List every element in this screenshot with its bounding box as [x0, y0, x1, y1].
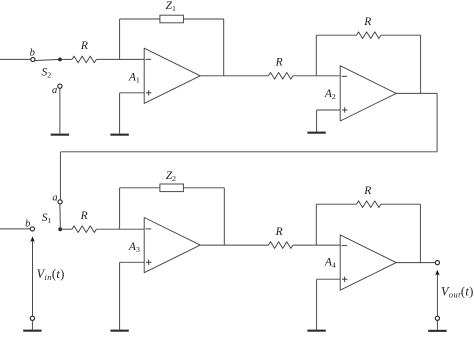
impedance Z1 (A1 feedback) — [160, 15, 184, 23]
resistor R (A2 feedback) — [357, 32, 381, 39]
wire: A4 output to Vout terminal — [396, 262, 435, 264]
wire: bottom input from left edge to S1 terminal b — [0, 228, 30, 230]
ground (Vout reference) — [428, 330, 446, 332]
op-amp A3 — [144, 218, 200, 273]
wire: A2 feedback right vertical to output — [420, 35, 422, 93]
wire: A1 feedback left vertical — [119, 19, 121, 59]
wire: A3 feedback left vertical — [119, 188, 121, 229]
ground (Vin reference) — [23, 330, 41, 332]
wire: resistor to A3 inverting input — [96, 228, 144, 230]
wire: a terminal down to ground — [59, 88, 61, 133]
wire: A3 feedback top left — [120, 187, 160, 189]
op-amp A4 — [340, 235, 396, 290]
svg-text:b: b — [30, 48, 35, 59]
wire: Vin lower terminal to ground — [31, 320, 33, 329]
resistor R (A4 input) — [269, 242, 293, 249]
ground (A1 non-inverting input) — [110, 134, 128, 136]
svg-text:a: a — [52, 85, 57, 96]
terminal: Vout lower (open circle) — [435, 316, 439, 320]
resistor R (A2 input) — [269, 73, 293, 80]
node b (S2 upper terminal, open circle) — [31, 57, 35, 61]
wire: right edge vertical down — [436, 93, 438, 151]
svg-text:b: b — [25, 218, 30, 229]
svg-text:a: a — [52, 193, 57, 204]
source Vin arrow (pointing up to b) — [32, 241, 34, 317]
node b (S1 left terminal, open circle) — [30, 227, 34, 231]
svg-text:R: R — [80, 210, 88, 222]
junction: S2 common node dot — [58, 57, 62, 61]
svg-text:R: R — [363, 16, 371, 28]
wire: A4 non-inverting down to ground — [316, 279, 318, 329]
wire: S2 node to resistor R — [60, 58, 72, 60]
wire: resistor to A1 inverting input — [96, 58, 144, 60]
wire: A2 feedback left vertical — [315, 35, 317, 76]
svg-text:R: R — [275, 57, 283, 69]
svg-text:R: R — [275, 226, 283, 238]
wire: A4 non-inverting input stub — [317, 278, 341, 280]
junction: S1 common node dot — [58, 227, 62, 231]
wire: A3 feedback right vertical to output — [223, 188, 225, 245]
node a (S2 lower terminal, open circle) — [58, 84, 62, 88]
wire: A4 feedback top right — [381, 203, 421, 205]
resistor R (A3 input) — [72, 226, 96, 233]
wire: A1 non-inverting down to ground — [119, 93, 121, 134]
wire: A3 output to resistor R — [200, 244, 268, 246]
ground (A3 non-inverting input) — [110, 330, 128, 332]
op-amp A1 — [144, 48, 200, 103]
wire: A1 feedback top left — [120, 18, 160, 20]
svg-text:R: R — [80, 40, 88, 52]
wire: A2 non-inverting down to ground — [316, 110, 318, 132]
wire: A4 feedback top left — [316, 203, 356, 205]
node a (S1 upper terminal, open circle) — [58, 200, 62, 204]
terminal: Vin lower (open circle) — [30, 316, 34, 320]
wire: resistor to A4 inverting input — [293, 244, 340, 246]
wire: A1 feedback right vertical to output — [223, 19, 225, 76]
wire: A4 feedback left vertical — [315, 204, 317, 245]
terminal Vout (open circle) — [435, 261, 439, 265]
wire: top input from left edge to switch S2 terminal b — [0, 58, 31, 60]
svg-text:R: R — [363, 185, 371, 197]
switch S2 blade (closed to b) — [35, 60, 58, 61]
source Vout arrow (pointing up to output) — [436, 274, 438, 316]
switch S1 blade (closed to a) — [59, 204, 61, 227]
wire: resistor to A2 inverting input — [293, 75, 340, 77]
wire: long return to S1 — [60, 151, 437, 153]
wire: A2 feedback top right — [381, 34, 421, 36]
ground (under S2 terminal a) — [51, 134, 69, 136]
resistor R (A1 input) — [72, 56, 96, 63]
wire: A2 non-inverting input stub — [317, 109, 341, 111]
wire: A3 non-inverting down to ground — [119, 262, 121, 329]
wire: A3 feedback top right — [183, 187, 224, 189]
ground (A4 non-inverting input) — [307, 330, 325, 332]
ground (A2 non-inverting input) — [307, 132, 325, 134]
wire: left vertical down to S1 terminal a — [59, 152, 61, 200]
op-amp A2 — [340, 66, 396, 121]
wire: A2 output — [396, 92, 437, 94]
wire: A3 non-inverting input stub — [120, 261, 145, 263]
impedance Z2 (A3 feedback) — [160, 184, 184, 192]
wire: S1 node to resistor R — [60, 228, 72, 230]
resistor R (A4 feedback) — [357, 201, 381, 208]
wire: A2 feedback top left — [316, 34, 356, 36]
wire: Vout lower terminal to ground — [436, 320, 438, 329]
wire: A4 feedback right vertical to output — [419, 204, 421, 262]
wire: A1 feedback top right — [183, 18, 223, 20]
wire: A1 non-inverting input stub — [120, 92, 145, 94]
wire: A1 output to resistor R — [200, 75, 268, 77]
